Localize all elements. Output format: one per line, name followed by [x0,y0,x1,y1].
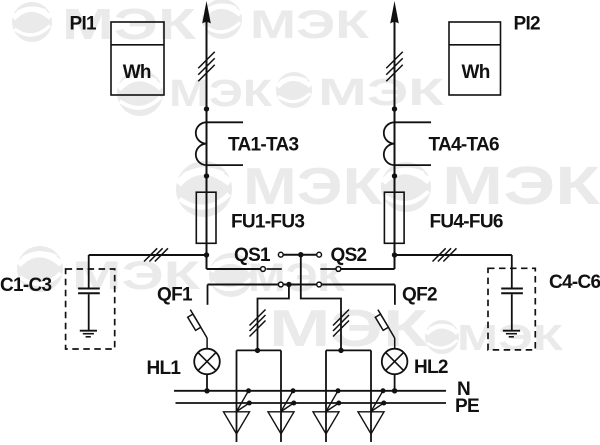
svg-text:QF1: QF1 [157,285,193,306]
svg-text:C4-C6: C4-C6 [549,272,600,293]
svg-text:TA1-TA3: TA1-TA3 [228,135,299,156]
svg-text:Wh: Wh [123,62,151,83]
svg-text:TA4-TA6: TA4-TA6 [429,135,500,156]
svg-text:HL1: HL1 [147,358,182,379]
svg-text:FU1-FU3: FU1-FU3 [231,212,304,233]
svg-text:FU4-FU6: FU4-FU6 [430,212,503,233]
svg-text:C1-C3: C1-C3 [0,275,52,296]
svg-text:QS2: QS2 [331,245,367,266]
svg-text:PI2: PI2 [514,14,541,35]
svg-text:МЭК: МЭК [442,156,600,216]
svg-text:МЭК: МЭК [269,300,428,358]
svg-text:МЭК: МЭК [318,72,445,114]
svg-text:QF2: QF2 [402,285,437,306]
svg-text:PI1: PI1 [70,14,98,35]
svg-text:Wh: Wh [462,62,490,83]
svg-text:МЭК: МЭК [250,3,370,47]
svg-text:QS1: QS1 [234,245,271,266]
svg-text:МЭК: МЭК [169,73,273,115]
svg-text:HL2: HL2 [414,357,448,378]
svg-text:МЭК: МЭК [243,158,382,216]
svg-text:PE: PE [455,396,479,417]
